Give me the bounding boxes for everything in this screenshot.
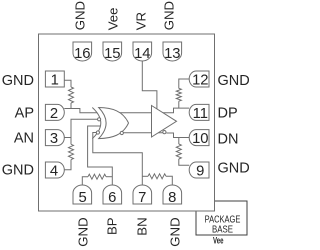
svg-text:12: 12 [192,72,208,88]
svg-text:10: 10 [192,131,208,147]
svg-text:DN: DN [218,131,239,147]
svg-text:6: 6 [108,190,116,206]
svg-text:GND: GND [2,73,34,89]
svg-text:GND: GND [218,161,250,177]
svg-text:GND: GND [75,217,90,246]
svg-text:2: 2 [50,106,58,122]
svg-text:4: 4 [50,163,58,179]
svg-text:14: 14 [134,46,150,62]
svg-text:7: 7 [138,190,146,206]
svg-text:BASE: BASE [212,224,233,235]
svg-text:GND: GND [2,162,34,178]
svg-text:Vee: Vee [213,236,224,246]
svg-text:16: 16 [74,46,90,62]
svg-text:8: 8 [168,190,176,206]
svg-text:GND: GND [73,1,88,30]
svg-text:AN: AN [14,131,34,147]
svg-text:Vee: Vee [105,8,120,31]
svg-text:VR: VR [134,12,149,30]
svg-text:BP: BP [104,217,119,235]
svg-text:GND: GND [168,217,183,246]
svg-text:AP: AP [15,105,34,121]
svg-text:3: 3 [50,131,58,147]
svg-text:1: 1 [51,72,59,88]
svg-text:13: 13 [164,46,180,62]
svg-text:15: 15 [104,46,120,62]
svg-text:11: 11 [193,106,208,122]
svg-text:GND: GND [218,73,250,89]
svg-text:GND: GND [162,1,177,30]
svg-text:DP: DP [218,105,238,121]
svg-text:5: 5 [78,190,86,206]
svg-text:BN: BN [134,217,149,235]
svg-text:9: 9 [196,163,204,179]
